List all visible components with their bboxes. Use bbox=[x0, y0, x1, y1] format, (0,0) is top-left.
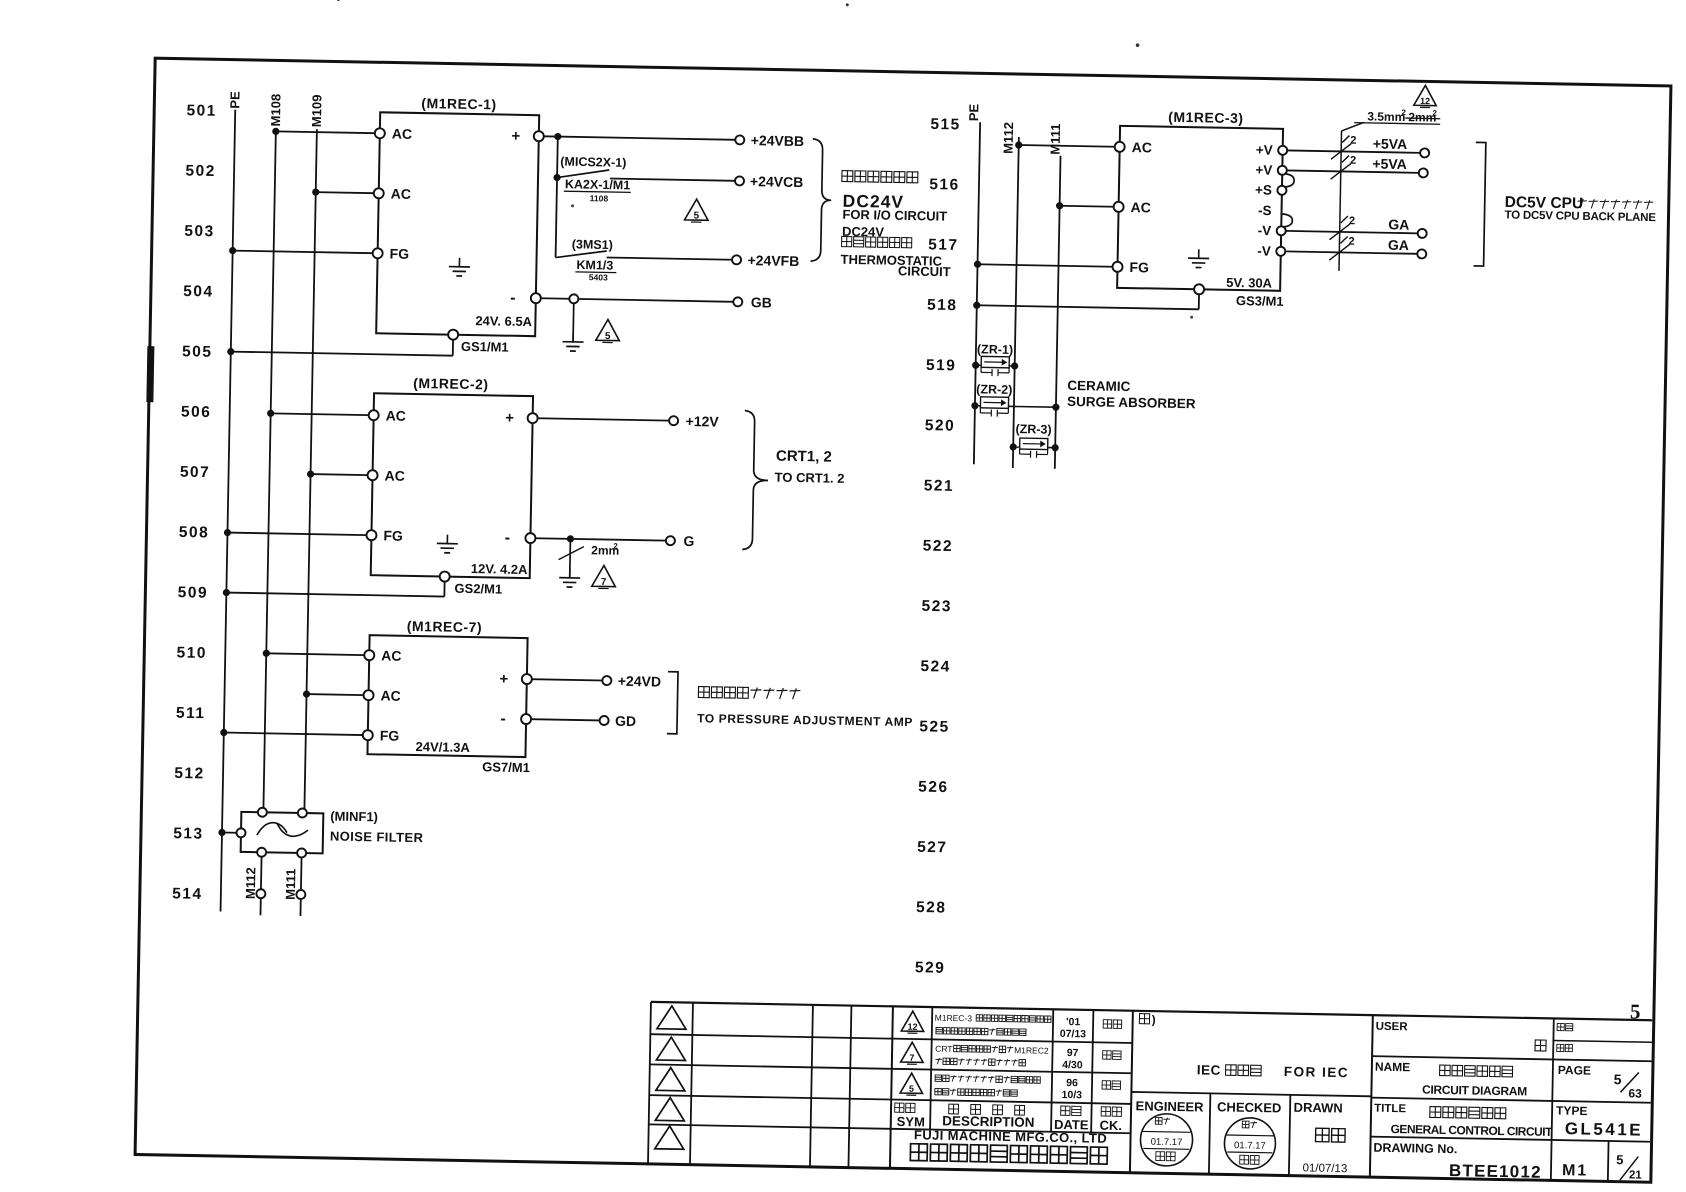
svg-text:AC: AC bbox=[391, 186, 412, 202]
svg-text:M111: M111 bbox=[1048, 123, 1064, 154]
svg-text:526: 526 bbox=[918, 779, 949, 797]
svg-text:GS3/M1: GS3/M1 bbox=[1236, 293, 1284, 309]
svg-text:97: 97 bbox=[1067, 1047, 1079, 1059]
svg-text:(M1REC-7): (M1REC-7) bbox=[407, 618, 483, 635]
pin + M1REC-2 bbox=[528, 413, 538, 423]
svg-text:2: 2 bbox=[1401, 108, 1406, 117]
wire M109 to AC2 bbox=[303, 690, 310, 697]
pin GS1/M1 M1REC-1 bbox=[448, 330, 458, 340]
svg-text:USER: USER bbox=[1376, 1021, 1409, 1034]
pin + M1REC-1 bbox=[534, 131, 544, 141]
name kanji denki kairo zu bbox=[1440, 1065, 1451, 1076]
pin GS3/M1 M1REC-3 bbox=[1194, 284, 1204, 294]
rectifier U2 (M1REC-2) box bbox=[371, 393, 533, 578]
pin bottom-right MINF1 bbox=[297, 848, 306, 857]
svg-text:505: 505 bbox=[182, 343, 213, 361]
svg-text:GA: GA bbox=[1388, 216, 1409, 232]
svg-text:515: 515 bbox=[930, 116, 961, 134]
svg-text:CRT: CRT bbox=[935, 1044, 953, 1054]
svg-text:527: 527 bbox=[917, 839, 948, 857]
revision row 2 triangle 7 bbox=[901, 1042, 924, 1062]
terminal +24VD bbox=[602, 676, 611, 685]
revision header DESCRIPTION bbox=[949, 1104, 959, 1114]
svg-text:509: 509 bbox=[178, 584, 209, 602]
pin AC1 M1REC-1 bbox=[375, 128, 385, 138]
svg-text:512: 512 bbox=[174, 765, 205, 783]
svg-text:+24VBB: +24VBB bbox=[751, 132, 805, 149]
terminal +24VFB bbox=[732, 255, 741, 264]
svg-text:+24VCB: +24VCB bbox=[750, 173, 804, 190]
pin GS2/M1 M1REC-2 bbox=[440, 571, 450, 581]
svg-text:7: 7 bbox=[601, 577, 607, 588]
pin FG M1REC-7 bbox=[363, 730, 373, 740]
svg-text:501: 501 bbox=[186, 102, 217, 120]
svg-text:3.5mm: 3.5mm bbox=[1367, 109, 1405, 124]
terminal +12V bbox=[669, 416, 678, 425]
svg-text:-: - bbox=[510, 290, 516, 307]
wire 517 PE to FG bbox=[974, 261, 981, 268]
wire down to earth ground 2mm2 bbox=[569, 539, 572, 578]
svg-text:G: G bbox=[683, 533, 694, 549]
rectifier U7 (M1REC-7) box bbox=[367, 635, 527, 757]
svg-text:(ZR-1): (ZR-1) bbox=[977, 342, 1013, 357]
svg-text:CERAMIC: CERAMIC bbox=[1067, 378, 1131, 394]
terminal +5VA 1 bbox=[1420, 148, 1429, 157]
svg-text:07/13: 07/13 bbox=[1060, 1028, 1087, 1040]
cable marker slash 2mm2 bbox=[559, 546, 584, 560]
pin top-right MINF1 bbox=[298, 808, 307, 817]
label bunban bbox=[1557, 1023, 1564, 1030]
drawn signature Tatematsu bbox=[1316, 1128, 1330, 1142]
pin - M1REC-1 bbox=[531, 293, 541, 303]
pin left MINF1 bbox=[236, 828, 245, 837]
revision row 2 CK bbox=[1103, 1051, 1112, 1060]
label pressure adjust amp japanese bbox=[698, 687, 709, 698]
svg-text:5: 5 bbox=[1630, 999, 1641, 1023]
wire 513 PE to filter bbox=[218, 829, 225, 836]
svg-text:523: 523 bbox=[921, 598, 952, 616]
stamp checked bbox=[1224, 1117, 1276, 1169]
bracket DC5V group bbox=[1474, 142, 1486, 266]
svg-text:M111: M111 bbox=[283, 869, 299, 900]
svg-text:5V. 30A: 5V. 30A bbox=[1226, 275, 1273, 291]
svg-text:AC: AC bbox=[392, 126, 413, 142]
svg-text:BTEE1012: BTEE1012 bbox=[1449, 1161, 1542, 1182]
revision row 1 CK bbox=[1103, 1020, 1112, 1029]
svg-text:510: 510 bbox=[176, 644, 207, 662]
svg-text:+24VD: +24VD bbox=[618, 673, 661, 690]
revision row 1 triangle 12 bbox=[901, 1011, 924, 1031]
svg-text:(MICS2X-1): (MICS2X-1) bbox=[560, 155, 626, 170]
svg-text:5: 5 bbox=[693, 211, 699, 222]
maker name kanji Fuji Kikai Seizo KK bbox=[910, 1144, 927, 1161]
cable slash GA 1 bbox=[1330, 224, 1350, 240]
wire 516 M111 to AC2 bbox=[1056, 202, 1063, 209]
revision row 3 triangle 5 bbox=[900, 1073, 923, 1093]
bracket pressure amp group bbox=[667, 672, 678, 734]
wire +V2 to +5VA bbox=[1287, 170, 1419, 172]
terminal G bbox=[666, 536, 675, 545]
rectifier U3 (M1REC-3) box bbox=[1117, 126, 1283, 291]
svg-text:CIRCUIT DIAGRAM: CIRCUIT DIAGRAM bbox=[1422, 1083, 1527, 1099]
svg-text:(M1REC-2): (M1REC-2) bbox=[413, 375, 489, 392]
svg-text:-: - bbox=[500, 711, 506, 728]
cable slash +5VA 1 bbox=[1331, 143, 1351, 159]
svg-text:519: 519 bbox=[926, 357, 957, 375]
svg-text:-V: -V bbox=[1257, 243, 1271, 258]
wire - output to GB bbox=[541, 298, 734, 302]
ground chassis symbol inside M1REC-1 bbox=[458, 258, 460, 267]
svg-text:+V: +V bbox=[1256, 142, 1273, 157]
svg-text:GB: GB bbox=[751, 294, 772, 310]
svg-text:12V. 4.2A: 12V. 4.2A bbox=[471, 561, 528, 577]
revision row 3 description bbox=[935, 1075, 942, 1082]
revision row 3 CK bbox=[1102, 1081, 1111, 1090]
svg-text:DRAWING No.: DRAWING No. bbox=[1373, 1141, 1457, 1157]
warning triangle 12 top bbox=[1414, 85, 1437, 105]
warning triangle 5 near +24VCB bbox=[685, 199, 709, 220]
svg-text:520: 520 bbox=[925, 417, 956, 435]
svg-text:522: 522 bbox=[923, 538, 954, 556]
pin -V2 M1REC-3 bbox=[1276, 247, 1285, 256]
wire M109 rail bbox=[304, 129, 317, 813]
svg-text:24V/1.3A: 24V/1.3A bbox=[415, 739, 470, 755]
engineer cells verticals bbox=[1209, 1093, 1210, 1174]
revision block verticals bbox=[930, 1007, 932, 1129]
svg-text:1108: 1108 bbox=[590, 193, 609, 203]
terminal GB bbox=[733, 297, 742, 306]
svg-text:12: 12 bbox=[1420, 96, 1430, 106]
svg-text:-S: -S bbox=[1258, 203, 1272, 218]
svg-text:NAME: NAME bbox=[1375, 1060, 1411, 1075]
svg-text:21: 21 bbox=[1629, 1169, 1643, 1181]
user block lines bbox=[1372, 1056, 1651, 1061]
svg-text:10/3: 10/3 bbox=[1061, 1089, 1082, 1101]
wire PE to FG bbox=[220, 729, 227, 736]
label seiban bbox=[1557, 1044, 1564, 1051]
terminal circle on GB wire bbox=[569, 294, 578, 303]
svg-text:'01: '01 bbox=[1066, 1016, 1081, 1028]
svg-text:M112: M112 bbox=[1001, 122, 1017, 154]
cable gauge line bbox=[1339, 131, 1342, 271]
wire -V2 to GA bbox=[1285, 251, 1417, 253]
wire 507 M109 to AC2 bbox=[307, 470, 314, 477]
wire below filter right M111 bbox=[300, 857, 303, 890]
svg-text:521: 521 bbox=[924, 477, 955, 495]
svg-text:FG: FG bbox=[1129, 259, 1149, 275]
svg-text:AC: AC bbox=[386, 407, 407, 423]
cable slash GA 2 bbox=[1329, 244, 1349, 260]
wire 509 PE to GS2 bbox=[223, 589, 230, 596]
ground chassis symbol inside M1REC-2 bbox=[446, 535, 448, 544]
svg-text:M109: M109 bbox=[309, 94, 325, 127]
svg-text:ENGINEER: ENGINEER bbox=[1135, 1098, 1204, 1114]
svg-text:KM1/3: KM1/3 bbox=[576, 258, 613, 273]
svg-text:M1REC2: M1REC2 bbox=[1014, 1045, 1049, 1056]
revision block horizontals bbox=[892, 1039, 1132, 1043]
pin AC2 M1REC-1 bbox=[374, 188, 384, 198]
pin AC2 M1REC-2 bbox=[367, 470, 377, 480]
svg-text:TYPE: TYPE bbox=[1556, 1104, 1588, 1119]
user dono kanji bbox=[1535, 1040, 1546, 1051]
terminal +5VA 2 bbox=[1419, 168, 1428, 177]
revision header SYM bbox=[895, 1103, 904, 1112]
svg-text:63: 63 bbox=[1628, 1086, 1642, 1100]
svg-text:24V. 6.5A: 24V. 6.5A bbox=[475, 313, 532, 329]
svg-text:96: 96 bbox=[1066, 1077, 1078, 1089]
wire M112 rail bbox=[1013, 137, 1019, 468]
svg-text:SURGE ABSORBER: SURGE ABSORBER bbox=[1067, 394, 1196, 411]
svg-text:TITLE: TITLE bbox=[1374, 1103, 1406, 1116]
svg-text:GS2/M1: GS2/M1 bbox=[454, 581, 502, 597]
svg-text:01.7.17: 01.7.17 bbox=[1151, 1137, 1183, 1149]
svg-text:GS7/M1: GS7/M1 bbox=[482, 759, 530, 775]
svg-text:+: + bbox=[511, 128, 520, 145]
svg-text:NOISE FILTER: NOISE FILTER bbox=[330, 828, 424, 845]
svg-text:GL541E: GL541E bbox=[1565, 1119, 1644, 1139]
pin + M1REC-7 bbox=[522, 674, 532, 684]
label thermostatic japanese bbox=[842, 236, 852, 246]
label I/O circuit japanese bbox=[842, 171, 853, 182]
svg-text:AC: AC bbox=[381, 647, 402, 663]
svg-text:2: 2 bbox=[1432, 109, 1437, 118]
svg-text:GD: GD bbox=[615, 713, 636, 729]
svg-text:504: 504 bbox=[183, 283, 214, 301]
svg-text:+5VA: +5VA bbox=[1373, 135, 1408, 152]
svg-text:GS1/M1: GS1/M1 bbox=[461, 339, 509, 355]
revision header CK bbox=[1101, 1107, 1110, 1116]
wire PE right rail bbox=[974, 122, 980, 464]
title block top line bbox=[651, 1002, 1652, 1020]
jumper arc +V2 to +S bbox=[1286, 174, 1295, 187]
svg-text:AC: AC bbox=[1130, 199, 1151, 215]
svg-text:FG: FG bbox=[380, 727, 400, 743]
wire + output to +24VD bbox=[532, 679, 603, 680]
pin +S M1REC-3 bbox=[1277, 186, 1286, 195]
svg-text:514: 514 bbox=[172, 885, 203, 903]
svg-text:(3MS1): (3MS1) bbox=[572, 237, 613, 252]
stamp engineer bbox=[1140, 1113, 1193, 1166]
user/name column vertical bbox=[1370, 1015, 1373, 1177]
svg-text:IEC: IEC bbox=[1197, 1062, 1221, 1077]
pin AC1 M1REC-2 bbox=[369, 410, 379, 420]
svg-text:(M1REC-1): (M1REC-1) bbox=[421, 95, 497, 112]
right column cells bbox=[1553, 1040, 1651, 1042]
connector M112 below filter bbox=[256, 889, 265, 898]
pin +V1 M1REC-3 bbox=[1278, 146, 1287, 155]
svg-text:AC: AC bbox=[384, 467, 405, 483]
svg-text:507: 507 bbox=[180, 464, 211, 482]
svg-text:M1REC-3: M1REC-3 bbox=[935, 1013, 973, 1024]
jumper arc -S to -V1 bbox=[1282, 214, 1292, 227]
svg-text:5: 5 bbox=[1614, 1071, 1622, 1087]
pin AC1 M1REC-7 bbox=[364, 650, 374, 660]
pin - M1REC-2 bbox=[525, 533, 535, 543]
scan speck dots bbox=[337, 0, 340, 1]
svg-text:GENERAL CONTROL CIRCUIT: GENERAL CONTROL CIRCUIT bbox=[1390, 1122, 1553, 1139]
wire 510 M108 to AC1 bbox=[263, 650, 270, 657]
wave symbol inside filter bbox=[257, 822, 287, 835]
pin - M1REC-7 bbox=[521, 714, 531, 724]
wire 501 M108 to AC1 bbox=[272, 128, 279, 135]
svg-text:2: 2 bbox=[1350, 155, 1356, 167]
svg-text:FOR IEC: FOR IEC bbox=[1284, 1064, 1350, 1080]
pin -V1 M1REC-3 bbox=[1277, 226, 1286, 235]
terminal GD bbox=[600, 716, 609, 725]
wire below filter left M112 bbox=[260, 856, 263, 889]
svg-text:(ZR-2): (ZR-2) bbox=[976, 382, 1012, 397]
svg-text:516: 516 bbox=[929, 176, 960, 194]
brace DC24V group bbox=[811, 139, 833, 262]
svg-text:DRAWN: DRAWN bbox=[1293, 1100, 1342, 1116]
wire +V1 to +5VA bbox=[1287, 150, 1420, 152]
svg-text:+24VFB: +24VFB bbox=[747, 252, 799, 269]
svg-text:M108: M108 bbox=[268, 94, 284, 127]
wire -V1 to GA bbox=[1286, 231, 1418, 233]
svg-text:2: 2 bbox=[1348, 236, 1354, 248]
wire 508 PE to FG bbox=[224, 529, 231, 536]
wire PE left rail bbox=[221, 110, 236, 912]
rectifier U1 (M1REC-1) box bbox=[376, 112, 539, 336]
wire 515 M112 to AC1 bbox=[1015, 141, 1022, 148]
svg-text:FG: FG bbox=[389, 245, 409, 261]
svg-text:GA: GA bbox=[1388, 237, 1409, 253]
svg-text:529: 529 bbox=[915, 959, 946, 977]
svg-text:(MINF1): (MINF1) bbox=[330, 809, 378, 825]
svg-text:CIRCUIT: CIRCUIT bbox=[898, 263, 951, 279]
pin AC2 M1REC-7 bbox=[363, 690, 373, 700]
terminal GA 2 bbox=[1417, 249, 1426, 258]
svg-text:): ) bbox=[1152, 1013, 1156, 1027]
svg-text:AC: AC bbox=[380, 687, 401, 703]
wire vertical output bus bbox=[554, 133, 561, 140]
title kanji sougou seigyo kairo bbox=[1430, 1107, 1441, 1118]
revision header DATE bbox=[1061, 1106, 1070, 1115]
svg-text:M1: M1 bbox=[1562, 1162, 1589, 1179]
ground chassis symbol inside M1REC-3 bbox=[1198, 249, 1200, 258]
svg-text:01.7.17: 01.7.17 bbox=[1234, 1140, 1266, 1152]
svg-text:PE: PE bbox=[227, 91, 242, 109]
svg-text:CRT1, 2: CRT1, 2 bbox=[776, 448, 832, 466]
empty revision triangles left bbox=[657, 1006, 686, 1030]
pin AC1 M1REC-3 bbox=[1115, 142, 1125, 152]
svg-text:+: + bbox=[499, 671, 508, 688]
relay contact KA2X-1/M1 (MICS2X-1) bbox=[553, 174, 560, 181]
pin bottom-left MINF1 bbox=[257, 848, 266, 857]
wire 505 PE to GS1 bbox=[227, 348, 234, 355]
svg-text:TO CRT1. 2: TO CRT1. 2 bbox=[774, 470, 844, 486]
svg-text:518: 518 bbox=[927, 297, 958, 315]
svg-text:PE: PE bbox=[966, 103, 981, 121]
bottom right cells bbox=[1607, 1141, 1610, 1181]
terminal +24VCB bbox=[735, 176, 744, 185]
svg-text:513: 513 bbox=[173, 825, 204, 843]
wire to +24VFB bbox=[607, 257, 733, 259]
svg-text:+S: +S bbox=[1255, 182, 1272, 197]
svg-text:M112: M112 bbox=[243, 867, 259, 899]
connector M111 below filter bbox=[296, 890, 305, 899]
svg-text:12: 12 bbox=[907, 1022, 917, 1032]
ground below GB wire bbox=[572, 303, 575, 341]
svg-text:+12V: +12V bbox=[685, 413, 719, 430]
label note) bbox=[1139, 1014, 1149, 1024]
contact KM1/3 (3MS1) bbox=[556, 250, 607, 258]
svg-text:CHECKED: CHECKED bbox=[1217, 1099, 1282, 1115]
svg-text:FG: FG bbox=[383, 527, 403, 543]
wire - output to GD bbox=[531, 719, 600, 720]
cable slash +5VA 2 bbox=[1331, 163, 1351, 179]
left revision table horizontals bbox=[650, 1034, 892, 1038]
pin FG M1REC-3 bbox=[1112, 262, 1122, 272]
svg-text:PAGE: PAGE bbox=[1558, 1063, 1591, 1078]
svg-text:524: 524 bbox=[920, 658, 951, 676]
wire to +24VCB bbox=[610, 179, 735, 181]
wire + output to +12V bbox=[538, 418, 670, 420]
scan blot on left border bbox=[146, 346, 154, 402]
wire + output to +24VBB bbox=[544, 136, 736, 140]
svg-text:517: 517 bbox=[928, 236, 959, 254]
svg-text:525: 525 bbox=[919, 718, 950, 736]
svg-text:4/30: 4/30 bbox=[1062, 1059, 1083, 1071]
svg-text:511: 511 bbox=[176, 705, 206, 723]
earth ground below G wire bbox=[569, 569, 571, 578]
wire 506 M108 to AC1 bbox=[267, 410, 274, 417]
svg-text:5403: 5403 bbox=[589, 272, 608, 282]
svg-text:+V: +V bbox=[1255, 162, 1272, 177]
pin FG M1REC-1 bbox=[373, 248, 383, 258]
svg-text:AC: AC bbox=[1132, 139, 1153, 155]
junction on G wire bbox=[567, 535, 574, 542]
svg-text:FOR I/O CIRCUIT: FOR I/O CIRCUIT bbox=[842, 207, 947, 224]
wire M111 rail bbox=[1055, 156, 1061, 469]
svg-text:502: 502 bbox=[185, 162, 216, 180]
svg-text:7: 7 bbox=[909, 1053, 914, 1063]
svg-text:2: 2 bbox=[1349, 215, 1355, 227]
svg-text:-: - bbox=[505, 530, 511, 547]
svg-text:01/07/13: 01/07/13 bbox=[1302, 1162, 1347, 1175]
svg-text:2: 2 bbox=[1350, 135, 1356, 147]
noise filter MINF1 box bbox=[241, 812, 324, 853]
pin +V2 M1REC-3 bbox=[1278, 166, 1287, 175]
wire 503 PE to FG bbox=[229, 247, 236, 254]
svg-text:(M1REC-3): (M1REC-3) bbox=[1168, 109, 1244, 126]
wire 502 M109 to AC2 bbox=[312, 188, 319, 195]
svg-text:503: 503 bbox=[184, 223, 215, 241]
svg-text:-V: -V bbox=[1258, 223, 1272, 238]
svg-text:5: 5 bbox=[605, 331, 611, 342]
wire 518 GS3 to PE bbox=[1198, 294, 1200, 309]
terminal +24VBB bbox=[735, 135, 744, 144]
wire M108 rail bbox=[263, 128, 276, 812]
brace CRT group bbox=[742, 411, 769, 550]
svg-text:5: 5 bbox=[1616, 1152, 1624, 1167]
pin top-left MINF1 bbox=[258, 808, 267, 817]
svg-text:506: 506 bbox=[181, 403, 212, 421]
warning triangle 5 near ground bbox=[596, 319, 620, 340]
svg-text:508: 508 bbox=[179, 524, 210, 542]
svg-text:(ZR-3): (ZR-3) bbox=[1015, 422, 1051, 437]
svg-text:+5VA: +5VA bbox=[1372, 155, 1407, 172]
svg-text:2: 2 bbox=[613, 542, 618, 551]
svg-text:528: 528 bbox=[916, 899, 947, 917]
left revision table verticals bbox=[648, 1002, 651, 1164]
svg-text:5: 5 bbox=[909, 1084, 914, 1094]
terminal GA 1 bbox=[1418, 229, 1427, 238]
pin FG M1REC-2 bbox=[366, 530, 376, 540]
pin AC2 M1REC-3 bbox=[1114, 202, 1124, 212]
svg-text:+: + bbox=[505, 410, 514, 427]
note block divider bbox=[1131, 1092, 1371, 1096]
